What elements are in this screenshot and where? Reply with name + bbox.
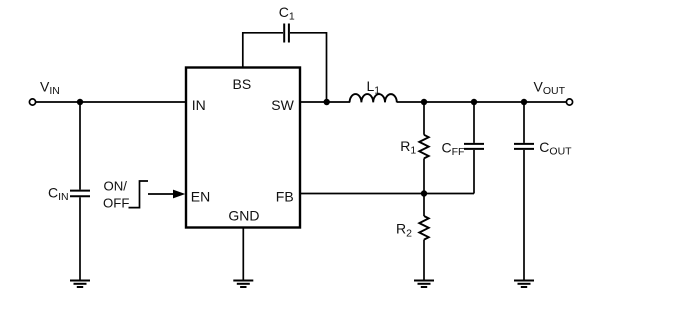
svg-text:OFF: OFF: [103, 195, 129, 210]
ground CIN: [70, 281, 90, 288]
capacitor C1: [284, 24, 289, 43]
svg-text:GND: GND: [228, 208, 259, 224]
svg-text:R2: R2: [396, 221, 412, 240]
node VOUT terminal: [566, 99, 572, 105]
ground R2: [414, 281, 434, 288]
svg-text:SW: SW: [271, 97, 294, 113]
wire VIN terminal to IN pin: [36, 101, 186, 103]
inductor L1: [350, 94, 397, 102]
svg-text:BS: BS: [233, 76, 252, 92]
wire COUT to ground: [523, 150, 525, 280]
wire GND pin to ground: [242, 228, 244, 281]
junction output node at CFF: [471, 99, 477, 105]
junction output node at COUT: [521, 99, 527, 105]
resistor R2: [419, 216, 428, 240]
node VIN terminal: [29, 99, 35, 105]
wire CFF top: [473, 102, 475, 143]
arrow wire into EN pin: [148, 193, 174, 195]
wire CFF bottom to FB rail: [473, 150, 475, 194]
capacitor CIN: [70, 191, 90, 197]
wire input node down to CIN: [79, 102, 81, 190]
svg-text:CFF: CFF: [442, 139, 465, 158]
svg-text:ON/: ON/: [104, 179, 128, 194]
wire FB node down to R2: [423, 194, 425, 217]
wire CIN to ground: [79, 197, 81, 280]
junction FB node: [421, 190, 427, 196]
svg-text:CIN: CIN: [48, 184, 69, 203]
wire FB pin to FB rail: [300, 193, 474, 195]
svg-text:L1: L1: [367, 78, 381, 97]
svg-text:VIN: VIN: [40, 79, 60, 98]
wire R2 to ground: [423, 240, 425, 280]
svg-text:COUT: COUT: [539, 139, 572, 158]
IC U1 body: [186, 68, 300, 228]
junction input node: [77, 99, 83, 105]
capacitor COUT: [514, 144, 534, 149]
wire output node down to R1: [423, 102, 425, 135]
svg-text:R1: R1: [400, 138, 416, 157]
wire SW pin to SW node: [300, 101, 350, 103]
wire BS pin up to C1: [243, 33, 283, 68]
ground COUT: [514, 281, 534, 288]
wire R1 to FB node: [423, 158, 425, 193]
svg-text:EN: EN: [191, 188, 210, 204]
wire COUT top: [523, 102, 525, 143]
svg-text:IN: IN: [192, 97, 206, 113]
capacitor CFF: [464, 144, 484, 149]
ground GND pin: [233, 281, 253, 288]
resistor R1: [419, 135, 428, 159]
wire L1 to output rail: [397, 101, 569, 103]
wire C1 down to SW node: [290, 33, 327, 102]
svg-text:C1: C1: [279, 4, 295, 23]
svg-text:VOUT: VOUT: [534, 79, 566, 98]
arrowhead into EN pin: [173, 190, 185, 199]
junction SW node: [324, 99, 330, 105]
junction output node at R1: [421, 99, 427, 105]
step waveform symbol at EN input: [129, 181, 149, 208]
svg-text:FB: FB: [276, 188, 294, 204]
